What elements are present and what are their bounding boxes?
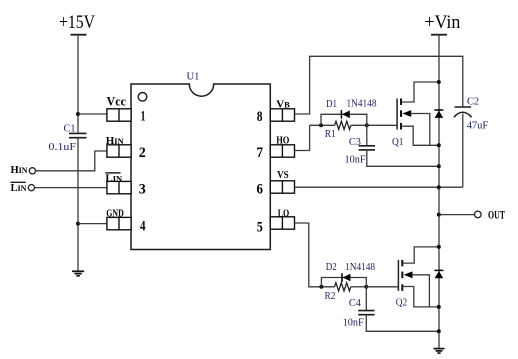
node Q1 drain dot: [437, 80, 441, 84]
node C3 return dot: [437, 164, 441, 168]
terminal LIN circle: [28, 185, 34, 191]
wire GND pin 4: [78, 223, 107, 225]
pin 7 HO box: [270, 145, 294, 157]
pin 3 LIN overline: [105, 172, 120, 174]
svg-text:HIN: HIN: [106, 135, 125, 147]
node GND tee dot: [76, 222, 80, 226]
svg-text:Q1: Q1: [392, 136, 404, 148]
transistor Q1 channel dashes: [400, 99, 402, 130]
wire node to Q2 gate: [366, 286, 398, 288]
svg-text:2: 2: [139, 145, 146, 161]
diode D2 cathode bar: [341, 273, 343, 282]
+Vin supply bar: [431, 34, 447, 36]
diode D2 triangle: [343, 274, 351, 282]
body diode Q2 cathode bar: [434, 269, 443, 271]
transistor Q1 body arrow: [402, 110, 411, 117]
wire C3 bottom to rail: [367, 150, 439, 166]
wire VB pin8 to C2 top: [295, 56, 463, 114]
transistor Q1 source wire: [402, 126, 439, 145]
svg-text:+Vin: +Vin: [424, 12, 460, 33]
node R2/D2 left dot: [319, 285, 323, 289]
node Vcc tee dot: [76, 112, 80, 116]
resistor R2: [335, 283, 351, 291]
capacitor C4: [358, 311, 374, 315]
transistor Q2 source wire: [403, 287, 439, 307]
wire +Vin rail vertical: [438, 35, 440, 349]
svg-text:4: 4: [140, 218, 146, 234]
ground (right): [434, 349, 445, 354]
node R2/D2 right dot: [364, 285, 368, 289]
svg-text:C3: C3: [349, 137, 361, 148]
svg-text:1N4148: 1N4148: [345, 262, 375, 273]
wire C4 bottom to rail: [366, 315, 439, 332]
wire R1 bottom branch left: [310, 124, 335, 126]
svg-text:6: 6: [257, 181, 264, 197]
pin 5 LO box: [270, 217, 294, 229]
svg-text:+15V: +15V: [59, 12, 95, 33]
wire node down to C4: [365, 287, 367, 311]
wire R1 right to node: [351, 124, 367, 126]
transistor Q2 drain wire: [403, 247, 439, 263]
svg-text:1N4148: 1N4148: [347, 98, 377, 109]
pin 8 VB box: [270, 109, 294, 121]
pin 6 VS box: [270, 181, 294, 193]
body diode Q1 triangle: [435, 111, 444, 118]
transistor Q2 body wire: [412, 275, 430, 307]
diode D1 cathode bar: [340, 110, 342, 119]
svg-text:C1: C1: [64, 123, 76, 134]
transistor Q2 body arrow: [404, 271, 413, 278]
node VS rail dot: [437, 185, 441, 189]
svg-text:C4: C4: [349, 298, 362, 309]
svg-text:1: 1: [141, 109, 146, 125]
svg-text:D2: D2: [326, 262, 337, 273]
capacitor C2 top plate: [455, 106, 472, 108]
body diode Q1 cathode bar: [434, 109, 443, 111]
svg-text:Q2: Q2: [396, 297, 408, 309]
diode D1 triangle: [342, 111, 350, 119]
svg-text:47uF: 47uF: [467, 119, 489, 131]
node Q2 drain dot: [437, 245, 441, 249]
capacitor C3: [359, 146, 375, 150]
node OUT tee dot: [437, 213, 441, 217]
pin 3 LIN box: [107, 181, 131, 193]
wire HIN to pin 2: [36, 151, 108, 171]
svg-text:10nF: 10nF: [343, 316, 364, 328]
svg-text:VS: VS: [277, 170, 289, 181]
node R1/D1 left dot: [319, 123, 323, 127]
wire to OUT terminal: [439, 214, 475, 216]
terminal HIN circle: [29, 168, 35, 174]
wire R2 right to node: [351, 286, 367, 288]
svg-text:R1: R1: [325, 129, 336, 140]
svg-text:OUT: OUT: [488, 209, 505, 221]
svg-text:U1: U1: [187, 70, 200, 82]
svg-text:Vcc: Vcc: [107, 95, 127, 109]
wire HO pin7 up to R1 node: [295, 125, 310, 150]
ground (left): [72, 271, 84, 276]
resistor R1: [335, 121, 351, 129]
wire +15V rail vertical: [77, 35, 79, 271]
wire VS pin6 to C2 bottom: [295, 186, 463, 188]
svg-text:LIN: LIN: [11, 183, 27, 194]
wire D2 top branch: [321, 278, 366, 287]
svg-text:LIN: LIN: [105, 172, 123, 184]
svg-text:GND: GND: [106, 208, 124, 219]
IC pin-1 indicator circle: [138, 93, 147, 102]
node C4 return dot: [437, 329, 441, 333]
terminal LIN overline: [11, 181, 26, 183]
pin 4 GND box: [107, 217, 131, 229]
wire LO pin5 down to R2 node: [295, 223, 335, 287]
svg-text:10nF: 10nF: [345, 154, 366, 166]
svg-text:8: 8: [257, 109, 263, 125]
svg-text:3: 3: [139, 182, 146, 198]
terminal OUT circle: [475, 211, 482, 218]
transistor Q1 drain wire: [402, 82, 439, 102]
svg-text:7: 7: [257, 145, 264, 161]
svg-text:LO: LO: [278, 208, 290, 219]
svg-text:R2: R2: [325, 291, 336, 302]
transistor Q1 gate bar: [396, 99, 398, 130]
wire LIN to pin 3: [35, 187, 108, 189]
svg-text:HIN: HIN: [11, 165, 28, 176]
svg-text:0.1uF: 0.1uF: [49, 141, 77, 153]
capacitor C1: [69, 133, 87, 137]
wire D1 top branch: [321, 114, 367, 125]
svg-text:HO: HO: [276, 135, 289, 146]
svg-text:D1: D1: [326, 99, 337, 110]
wire node down to C3: [366, 125, 368, 146]
node R1/D1 right dot: [365, 123, 369, 127]
op-amp/driver IC U1 body: [131, 84, 270, 250]
wire C2 bottom to VS line: [462, 114, 464, 188]
svg-text:C2: C2: [467, 96, 479, 107]
wire node to Q1 gate: [367, 124, 397, 126]
wire Vcc to pin 1: [78, 113, 107, 115]
+15V supply bar: [71, 34, 87, 36]
node Q1 source dot: [437, 143, 441, 147]
body diode Q2 triangle: [435, 271, 444, 278]
transistor Q2 channel dashes: [401, 260, 403, 291]
pin 2 HIN box: [107, 145, 131, 157]
svg-text:5: 5: [257, 219, 263, 235]
transistor Q1 body wire: [411, 114, 430, 146]
capacitor C2 curved plate: [454, 112, 472, 117]
transistor Q2 gate bar: [397, 260, 399, 291]
node Q2 source dot: [437, 305, 441, 309]
svg-text:VB: VB: [276, 98, 290, 110]
pin 1 Vcc box: [107, 109, 131, 121]
